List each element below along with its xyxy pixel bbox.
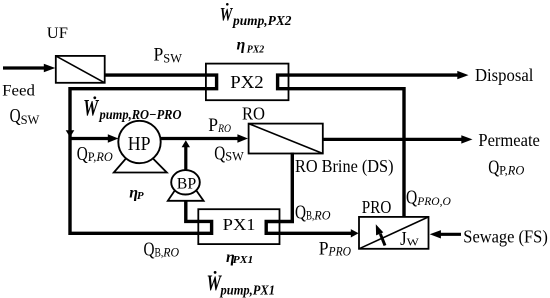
svg-text:pump,PX1: pump,PX1: [220, 283, 275, 298]
PX2 box: [206, 64, 289, 101]
svg-text:Feed: Feed: [2, 83, 35, 100]
svg-text:PX1: PX1: [223, 215, 256, 234]
svg-text:PX2: PX2: [230, 72, 263, 92]
wire PX2 right U-turn / disposal / down to PRO: [278, 75, 459, 217]
svg-text:η: η: [237, 37, 246, 54]
svg-text:W: W: [83, 95, 99, 120]
label W_pump_PX2: [220, 3, 292, 28]
wire P_SW / PX2 left U-turn / left column down / PX1 bottom-left port / BP branch: [70, 75, 217, 233]
wire permeate: [323, 138, 463, 141]
svg-text:PX1: PX1: [233, 254, 254, 266]
svg-text:BP: BP: [177, 175, 196, 192]
svg-text:HP: HP: [128, 133, 151, 155]
svg-text:UF: UF: [47, 25, 68, 42]
wire BP up into P_RO line: [184, 147, 187, 171]
label W_pump_PX1: [207, 270, 276, 298]
PRO box: [359, 217, 429, 249]
wire junction to HP: [70, 137, 113, 140]
svg-text:pump,RO−PRO: pump,RO−PRO: [99, 108, 182, 123]
svg-text:Sewage (FS): Sewage (FS): [463, 226, 548, 246]
RO box: [249, 124, 323, 154]
svg-text:PRO: PRO: [362, 197, 392, 217]
svg-text:Disposal: Disposal: [475, 65, 533, 85]
pump BP: [168, 170, 204, 201]
wire feed arrow line: [3, 66, 44, 69]
arrowhead down at junction: [66, 130, 75, 137]
svg-text:PX2: PX2: [247, 43, 265, 55]
PX1 box: [198, 209, 279, 244]
wire HP to RO (P_RO): [161, 137, 243, 140]
wire RO brine down / PX1 right U-turn / P_PRO to PRO: [266, 153, 352, 234]
svg-text:W: W: [220, 4, 233, 25]
svg-text:pump,PX2: pump,PX2: [232, 13, 292, 28]
svg-text:RO: RO: [242, 103, 265, 123]
svg-text:RO Brine (DS): RO Brine (DS): [295, 156, 394, 177]
UF box: [56, 56, 105, 83]
wire sewage arrow: [440, 233, 461, 236]
PRO flux arrow Jw: [376, 224, 385, 245]
svg-text:Permeate: Permeate: [478, 130, 540, 150]
svg-text:P: P: [137, 190, 144, 202]
label W_pump_RO-PRO: [83, 95, 181, 123]
pump HP: [114, 121, 167, 173]
